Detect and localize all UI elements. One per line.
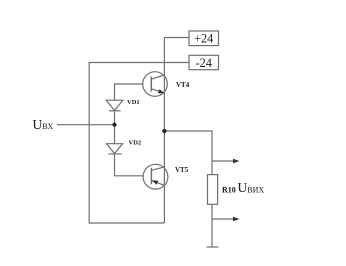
svg-text:+24: +24 (194, 32, 213, 46)
svg-text:VT5: VT5 (175, 166, 189, 174)
node A junction dot (input/diodes) (112, 123, 116, 127)
wire input Uвх (57, 124, 115, 126)
resistor R10 (208, 175, 218, 205)
wire output terminal top arrow (212, 160, 235, 162)
supply box -24 (189, 55, 219, 70)
svg-text:VD2: VD2 (129, 140, 142, 147)
wire VT4 collector / output node / VT5 collector-emitter column (163, 38, 165, 224)
wire -24 rail left side and bottom (89, 63, 189, 224)
transistor VT4 (NPN) (143, 72, 168, 97)
diode VD2 (107, 144, 123, 154)
supply box +24 (189, 31, 219, 46)
wire +24 to collector column (164, 37, 189, 39)
svg-text:VT4: VT4 (176, 81, 190, 89)
transistor VT5 (PNP) (143, 164, 168, 189)
svg-text:VD1: VD1 (127, 99, 140, 106)
svg-text:-24: -24 (195, 56, 211, 70)
wire VD1 cathode to node A (114, 111, 116, 144)
diode VD1 (106, 100, 123, 111)
arrow head top output (233, 159, 240, 164)
wire VD2 cathode to VT5 base (115, 154, 144, 176)
arrow head bottom output (233, 217, 240, 222)
output node junction dot (162, 129, 166, 133)
wire VT4 base to diode chain (115, 84, 143, 100)
svg-text:R10: R10 (222, 186, 236, 195)
wire output node to resistor R10 (164, 131, 212, 175)
wire resistor R10 bottom to ground (211, 204, 213, 247)
wire output terminal bottom arrow (212, 218, 235, 220)
ground bar (207, 246, 219, 248)
